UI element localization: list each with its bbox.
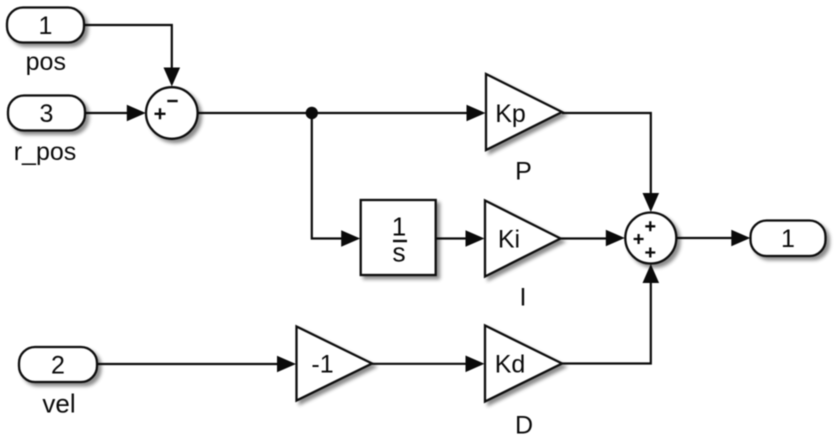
arrowhead into Sum2 bottom bbox=[643, 264, 660, 283]
gain Ki block bbox=[485, 201, 561, 277]
arrowhead into integrator bbox=[341, 230, 360, 247]
arrowhead into Sum1 left bbox=[127, 105, 146, 122]
wire from gain Kp to Sum2 top bbox=[562, 113, 651, 195]
wire from inport 1 to Sum1 top bbox=[84, 25, 172, 70]
arrowhead into outport 1 bbox=[731, 230, 750, 247]
svg-text:r_pos: r_pos bbox=[14, 138, 77, 166]
wire branch from junction down to integrator bbox=[312, 113, 342, 239]
wire from gain Kd to Sum2 bottom bbox=[562, 282, 651, 364]
Sum2 plus sign (top input) bbox=[645, 221, 655, 231]
Sum1 minus sign (top input) bbox=[167, 100, 177, 102]
arrowhead into gain Kd bbox=[466, 356, 485, 373]
inport 2 block bbox=[19, 347, 97, 382]
inport 1 block bbox=[7, 8, 84, 43]
arrowhead into Sum2 top bbox=[643, 193, 660, 212]
gain -1 block bbox=[297, 327, 373, 401]
outport 1 block bbox=[751, 221, 826, 257]
svg-text:Kd: Kd bbox=[495, 351, 526, 379]
gain Kp block bbox=[486, 74, 562, 150]
svg-text:2: 2 bbox=[51, 352, 65, 380]
svg-text:Ki: Ki bbox=[498, 226, 520, 254]
wire from inport 2 to gain -1 bbox=[97, 363, 278, 365]
arrowhead into gain Ki bbox=[466, 230, 485, 247]
svg-text:3: 3 bbox=[40, 100, 54, 128]
svg-text:P: P bbox=[515, 158, 532, 186]
wire from gain Ki to Sum2 left bbox=[561, 237, 607, 239]
svg-text:-1: -1 bbox=[311, 351, 333, 379]
Sum2 plus sign (bottom input) bbox=[645, 248, 655, 258]
sum block Sum2 bbox=[625, 213, 676, 264]
arrowhead into gain Kp bbox=[467, 105, 486, 122]
svg-text:1: 1 bbox=[781, 225, 795, 253]
integrator block 1/s bbox=[361, 200, 436, 275]
wire from Sum1 output to gain Kp bbox=[198, 112, 467, 114]
svg-text:Kp: Kp bbox=[495, 100, 526, 128]
junction node on Sum1 output wire bbox=[306, 107, 318, 119]
svg-text:s: s bbox=[392, 238, 405, 268]
sum block Sum1 bbox=[146, 87, 198, 139]
gain Kd block bbox=[485, 326, 562, 402]
svg-text:vel: vel bbox=[42, 389, 75, 419]
svg-text:pos: pos bbox=[26, 48, 66, 76]
svg-text:D: D bbox=[515, 412, 533, 440]
svg-text:1: 1 bbox=[39, 12, 53, 40]
Sum1 plus sign (left input) bbox=[155, 108, 166, 119]
integrator fraction bar bbox=[393, 240, 407, 242]
svg-text:I: I bbox=[520, 284, 527, 312]
arrowhead into Sum1 top bbox=[164, 68, 181, 87]
wire from Sum2 output to outport 1 bbox=[676, 237, 732, 239]
arrowhead into gain -1 bbox=[277, 356, 296, 373]
arrowhead into Sum2 left bbox=[606, 230, 625, 247]
inport 3 block bbox=[8, 96, 85, 131]
Sum2 plus sign (left input) bbox=[634, 234, 644, 244]
wire from integrator to gain Ki bbox=[436, 237, 466, 239]
wire from gain -1 to gain Kd bbox=[372, 363, 466, 365]
wire from inport 3 to Sum1 left bbox=[85, 112, 128, 114]
